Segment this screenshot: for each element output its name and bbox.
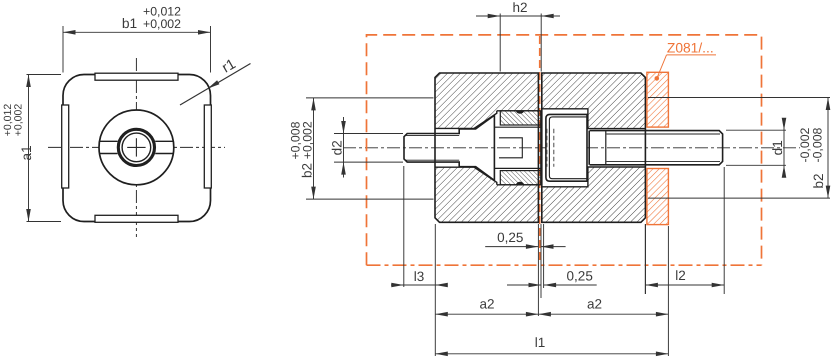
sleeve bump dot top — [516, 111, 524, 114]
svg-text:a1: a1 — [19, 145, 34, 160]
svg-text:0,25: 0,25 — [567, 269, 593, 284]
dimension 0,25 lower — [507, 284, 597, 286]
left body outline — [435, 73, 538, 222]
dimension h2 — [476, 14, 560, 72]
right body section (hatched) — [542, 73, 646, 222]
centerline horizontal (left view) — [48, 146, 225, 148]
parting line phantom (orange) — [539, 36, 541, 264]
crosshair — [127, 146, 145, 148]
mould plate phantom box (orange) — [367, 35, 762, 265]
slot line right-bottom — [155, 153, 173, 155]
svg-text:a2: a2 — [479, 297, 494, 312]
svg-text:-0,008: -0,008 — [811, 127, 825, 162]
centerline vertical (left view) — [135, 58, 137, 237]
Z081 plate section top (orange hatched) — [647, 72, 669, 127]
svg-text:b1: b1 — [122, 16, 137, 31]
svg-text:+0,008: +0,008 — [289, 121, 303, 159]
pad left — [62, 105, 69, 188]
tapped hole in sleeve — [499, 138, 522, 158]
dimension b2 left — [306, 98, 434, 199]
sleeve section bottom band (hatched) — [500, 171, 541, 185]
svg-text:d1: d1 — [770, 140, 785, 155]
leader r1 — [180, 64, 251, 106]
sleeve lip lines — [495, 126, 542, 128]
dimension b2 right — [648, 98, 830, 199]
pad right — [204, 105, 211, 188]
svg-text:+0,002: +0,002 — [143, 17, 181, 31]
right screw shoulder face — [588, 131, 590, 165]
svg-text:d2: d2 — [330, 140, 345, 155]
slot line left-top — [99, 140, 117, 142]
dimension b1 — [63, 26, 211, 73]
boss face line — [540, 111, 542, 185]
svg-text:Z081/...: Z081/... — [667, 40, 714, 55]
svg-text:a2: a2 — [587, 297, 602, 312]
left body cavity outline — [435, 111, 538, 185]
dimension l3 — [391, 166, 448, 356]
centring plug flange — [546, 114, 587, 181]
dimension d2 — [334, 117, 403, 178]
right body outline — [542, 73, 646, 222]
sleeve bump dot bottom — [516, 182, 524, 185]
sleeve section top band (hatched) — [500, 111, 541, 125]
left body section (hatched) — [435, 73, 538, 222]
square flange outline — [63, 75, 211, 222]
right screw thread outline — [590, 131, 723, 165]
svg-text:h2: h2 — [512, 0, 527, 15]
svg-text:+0,002: +0,002 — [13, 104, 25, 137]
dimension 0,25 upper — [485, 224, 565, 316]
slot line left-bottom — [99, 153, 117, 155]
pad top — [95, 73, 178, 80]
plug hidden thread lines — [547, 129, 554, 167]
bore ring (heavy) — [118, 129, 154, 165]
right screw thread start line — [605, 131, 607, 165]
right body cavity outline — [542, 109, 646, 187]
left screw thread core lines — [406, 134, 460, 136]
dimension l2 — [645, 167, 724, 294]
left screw (countersunk) outline — [404, 115, 494, 180]
axis centerline (section) — [343, 147, 800, 149]
bore inner circle — [122, 133, 151, 162]
svg-text:l2: l2 — [675, 268, 686, 283]
svg-text:0,25: 0,25 — [497, 230, 523, 245]
dimension a2 pair — [435, 226, 668, 356]
dimension a1 — [27, 75, 62, 222]
pad bottom — [95, 215, 178, 222]
dimension d1 — [726, 118, 786, 178]
svg-text:l3: l3 — [414, 269, 425, 284]
boss circle — [99, 110, 174, 185]
label Z081/... (orange) — [657, 55, 716, 79]
phantom box bottom edge (dash-dot) — [367, 264, 762, 266]
right screw thread core lines — [607, 133, 721, 135]
svg-text:l1: l1 — [535, 335, 546, 350]
svg-text:b2: b2 — [811, 173, 826, 188]
Z081 plate section bottom (orange hatched) — [647, 169, 669, 225]
dimension l1 — [435, 353, 668, 355]
plug flange chamfer echo line — [549, 117, 587, 179]
slot line right-top — [155, 140, 173, 142]
